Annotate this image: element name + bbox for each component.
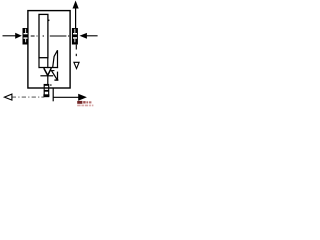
arrowhead inlet right	[80, 33, 87, 39]
port plug stack left	[23, 28, 29, 45]
center dash-dot line	[31, 35, 69, 37]
drain dash line bottom left	[12, 96, 45, 98]
watermark text row1	[77, 101, 91, 104]
arrowhead top up	[73, 1, 79, 9]
spool left edge extension	[38, 58, 40, 68]
lower wedge diagonal	[52, 71, 57, 80]
seat line C	[40, 75, 53, 77]
arrowhead inlet left	[15, 33, 22, 39]
lower wedge foot	[54, 79, 58, 81]
outlet line bottom right	[53, 96, 79, 98]
inlet line right	[87, 35, 98, 37]
inlet line left	[3, 35, 16, 37]
seat triangle left edge	[44, 68, 48, 75]
spool right edge extension	[47, 58, 49, 68]
pilot line top right	[75, 8, 77, 28]
port plug stack bottom	[43, 85, 49, 97]
bottom port vertical	[52, 88, 54, 101]
poppet cone sail right edge	[57, 50, 59, 68]
open arrowhead drain down	[74, 62, 79, 68]
drain dashes right	[75, 45, 77, 57]
stem drop vertical	[47, 76, 49, 85]
centerline dot bottom	[50, 84, 51, 85]
spool tick	[48, 19, 50, 21]
open arrowhead bottom left	[4, 94, 11, 100]
seat triangle right edge	[48, 68, 52, 75]
lower wedge top bar	[51, 70, 55, 72]
port plug stack right	[72, 28, 78, 45]
watermark text row2	[77, 105, 93, 107]
seat line B	[39, 67, 59, 69]
valve body outer rectangle	[28, 11, 70, 88]
poppet cone sail left edge	[53, 50, 58, 68]
spool inner rectangle	[39, 14, 48, 57]
lower wedge right vertical	[57, 72, 59, 81]
arrowhead bottom right	[78, 94, 87, 101]
